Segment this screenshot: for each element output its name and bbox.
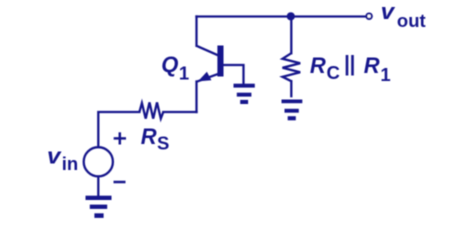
svg-text:in: in: [62, 153, 78, 174]
svg-text:1: 1: [380, 64, 390, 85]
wire base lead: [224, 65, 244, 84]
svg-text:Q: Q: [161, 52, 178, 77]
svg-text:v: v: [47, 143, 62, 168]
voltage source VS: [84, 147, 113, 176]
node junction dot: [287, 12, 295, 20]
base bar: [217, 46, 223, 77]
emitter arrow: [198, 72, 212, 82]
wire top rail: [197, 15, 366, 17]
transistor Q1: [197, 46, 224, 82]
svg-text:1: 1: [179, 63, 189, 84]
wire RS left: [163, 111, 196, 113]
wire RC bottom: [290, 81, 292, 96]
output terminal: [366, 14, 371, 19]
svg-text:R: R: [141, 124, 157, 149]
ground (base): [234, 84, 255, 104]
wire RS to source: [98, 112, 139, 147]
svg-text:v: v: [381, 0, 396, 24]
ground (RC): [282, 100, 303, 121]
svg-text:R: R: [364, 53, 380, 78]
wire emitter vertical: [195, 82, 197, 113]
resistor RS: [139, 102, 163, 118]
minus sign: [114, 181, 126, 184]
svg-text:S: S: [157, 133, 169, 154]
svg-text:C: C: [327, 62, 340, 83]
ground (source): [86, 196, 112, 218]
svg-text:R: R: [310, 53, 326, 78]
wire source to ground: [97, 177, 99, 196]
svg-text:out: out: [397, 10, 426, 31]
parallel bars: [347, 55, 353, 76]
wire collector vertical: [195, 17, 197, 46]
collector diagonal: [197, 46, 220, 56]
plus sign: [114, 132, 126, 144]
wire RC vertical top: [290, 17, 292, 54]
emitter diagonal: [197, 73, 220, 81]
resistor RC parallel R1: [283, 53, 301, 81]
